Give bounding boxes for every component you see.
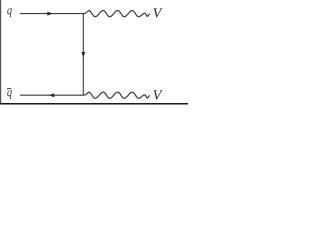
left page-edge rule: [0, 0, 2, 104]
fermion line q (top incoming): [20, 13, 83, 15]
boson wavy line V (top outgoing): [83, 11, 149, 17]
label qbar (incoming antiquark): [7, 90, 12, 99]
qbar overline: [7, 88, 11, 90]
label V (bottom boson): [153, 90, 162, 99]
arrow on q line (points right): [47, 12, 53, 16]
arrow on propagator (points down): [81, 52, 85, 58]
boson wavy line V (bottom outgoing): [83, 92, 149, 98]
arrow on qbar line (points left): [49, 93, 55, 97]
fermion line qbar (bottom incoming): [20, 94, 83, 96]
bottom page rule: [0, 103, 188, 105]
label V (top boson): [153, 8, 162, 17]
label q (incoming quark): [7, 8, 12, 17]
internal quark propagator (vertical): [82, 14, 84, 96]
